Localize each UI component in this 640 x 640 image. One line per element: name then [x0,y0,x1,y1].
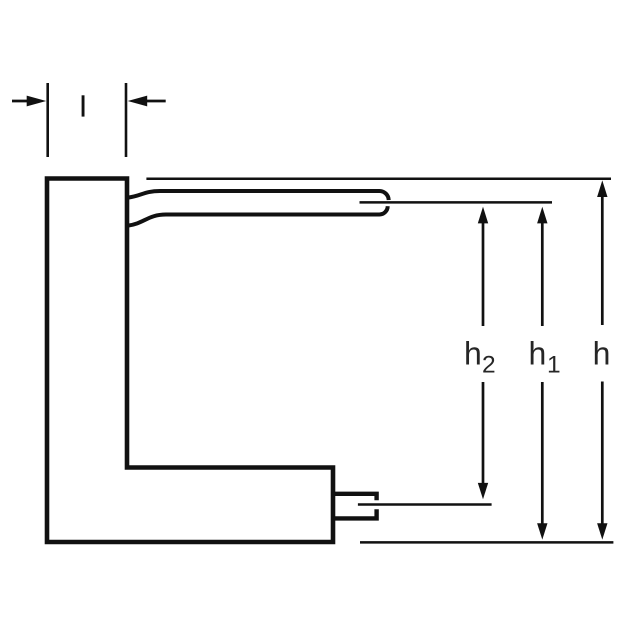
extension line left (for l) [46,83,49,157]
dimension arrow h1 (double-headed) [537,207,547,540]
dimension arrow l left [12,96,46,107]
tab upper hook at bottom-right [333,494,377,501]
svg-text:1: 1 [547,351,561,378]
label l [82,95,85,116]
dimension arrow h2 (double-headed) [478,207,488,500]
svg-text:h: h [464,336,482,372]
tab lower hook at bottom-right [333,509,377,518]
dimension arrow l right [128,96,166,107]
svg-text:2: 2 [482,351,496,378]
profile body outline (L-shaped section) [47,179,333,543]
reference line h2 (tab centre) [358,503,492,506]
reference line h1 (lamella fold centre) [360,201,553,204]
lamella lower line (folded sheet, bottom) [128,206,388,225]
reference line bottom surface [360,541,613,544]
svg-text:h: h [593,336,611,372]
dimension arrow h (double-headed) [597,180,607,539]
svg-text:h: h [529,336,547,372]
extension line right (for l) [125,83,128,157]
reference line h (top surface) [146,177,611,180]
lamella upper line (folded sheet, top) [128,191,389,200]
